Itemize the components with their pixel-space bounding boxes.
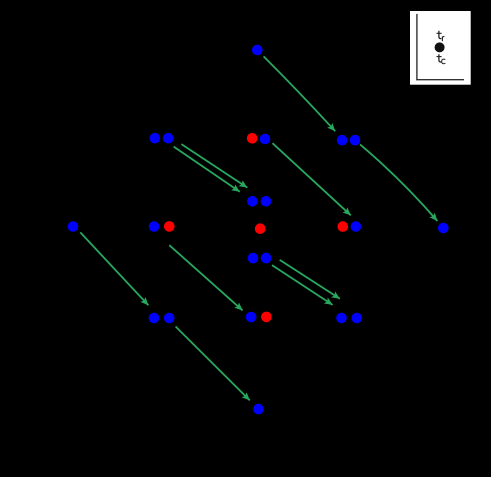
node row2 single blue right xyxy=(438,223,449,234)
node pair row1-left, blue dot 1 xyxy=(150,133,161,144)
wire double arrow A7a xyxy=(280,260,340,299)
node pair row1-mid, blue dot xyxy=(260,134,271,145)
node pair row2-right, red dot xyxy=(338,221,349,232)
legend axis vertical line xyxy=(416,14,418,80)
node pair row2-right, blue dot xyxy=(351,221,362,232)
node bottom single blue xyxy=(253,404,264,415)
node pair row1-left, blue dot 2 xyxy=(163,133,174,144)
legend marker dot xyxy=(435,42,445,52)
node pair mid-upper, blue dot 2 xyxy=(261,196,272,207)
wire double arrow A2a xyxy=(181,144,247,188)
wire double arrow A7b xyxy=(272,265,333,305)
node pair row3-left, blue dot 2 xyxy=(164,313,175,324)
node pair row2-left, red dot xyxy=(164,221,175,232)
node pair row1-mid, red dot xyxy=(247,133,258,144)
node pair row3-right, blue dot 1 xyxy=(336,313,347,324)
node pair row3-right, blue dot 2 xyxy=(352,313,363,324)
node row2 single blue left xyxy=(68,221,79,232)
legend box xyxy=(410,11,471,85)
node row2 single red center xyxy=(255,223,266,234)
node pair row1-right, blue dot 1 xyxy=(337,135,348,146)
wire arrow A5 xyxy=(80,232,148,305)
wire arrow A6 xyxy=(169,245,242,310)
wire arrow A4 xyxy=(360,144,437,221)
node top single blue xyxy=(252,45,263,56)
wire double arrow A2b xyxy=(174,147,240,192)
node pair row3-mid, blue dot xyxy=(246,312,257,323)
node pair row3-mid, red dot xyxy=(261,312,272,323)
node pair mid-upper, blue dot 1 xyxy=(247,196,258,207)
wire arrow A1 (top node to right pair) xyxy=(264,56,336,131)
node pair row2-left, blue dot xyxy=(149,221,160,232)
wire arrow A8 xyxy=(176,327,250,401)
wire arrow A3 xyxy=(273,143,351,215)
node pair row3-left, blue dot 1 xyxy=(149,313,160,324)
legend label t_r xyxy=(437,31,445,41)
node pair mid-lower, blue dot 1 xyxy=(248,253,259,264)
legend label t_c xyxy=(437,54,446,64)
legend axis horizontal line xyxy=(416,79,464,81)
node pair row1-right, blue dot 2 xyxy=(350,135,361,146)
node pair mid-lower, blue dot 2 xyxy=(261,253,272,264)
